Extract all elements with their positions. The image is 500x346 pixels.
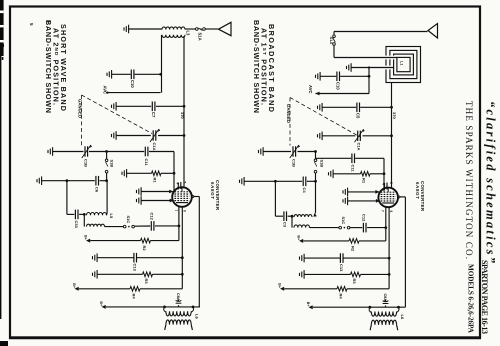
resistor R2 left <box>141 238 151 243</box>
wire S1A to antenna <box>205 28 218 30</box>
wire C13-bus right <box>343 257 389 259</box>
capacitor C7 <box>152 102 155 112</box>
coil L6 primary left <box>164 307 166 312</box>
wire C10-node <box>135 73 160 75</box>
svg-text:R4: R4 <box>132 294 137 300</box>
wire plate left <box>192 196 194 198</box>
svg-text:C3: C3 <box>282 222 287 228</box>
ganged dashed link (left) <box>82 95 153 134</box>
resistor R1 right <box>361 172 371 177</box>
wire ground-R3 <box>97 273 142 275</box>
wire C11 right <box>316 157 352 159</box>
wire ground-C1A right <box>322 135 355 137</box>
resistor R4 right <box>337 287 347 292</box>
ground (C6 line) <box>37 176 42 185</box>
ground (C4 line) <box>240 177 245 186</box>
svg-text:S1B: S1B <box>320 160 325 168</box>
svg-text:C5: C5 <box>356 113 361 119</box>
capacitor C8A left <box>178 305 180 307</box>
node C12/pin right <box>384 226 387 229</box>
wire right box vertical <box>274 181 276 216</box>
coil L6 secondary right <box>371 320 396 325</box>
ground (R1 right) <box>329 170 334 179</box>
svg-text:370: 370 <box>180 112 185 119</box>
wire C6-S1B <box>100 180 107 182</box>
wire B+ to L6 right <box>313 306 406 308</box>
svg-text:S1A: S1A <box>329 37 334 45</box>
wire C12-pin <box>155 225 179 227</box>
left page-edge black bar <box>0 0 4 56</box>
capacitor C8A right <box>385 306 387 308</box>
wire B+-R4 right <box>284 288 337 290</box>
wire C11-corner right <box>355 157 384 159</box>
svg-text:R2: R2 <box>351 246 356 252</box>
svg-text:C8A: C8A <box>176 293 180 301</box>
coil L6 secondary left <box>166 320 191 325</box>
switch S1A <box>196 28 199 31</box>
svg-text:C1B: C1B <box>292 159 297 167</box>
node R3 left <box>181 273 184 276</box>
node C7/bus <box>183 105 186 108</box>
wire C12-pin right <box>367 227 386 229</box>
wire R2-pin <box>151 240 179 242</box>
loop antenna L1 <box>386 47 421 83</box>
svg-text:C10: C10 <box>335 82 340 90</box>
node L5 right a <box>291 215 294 218</box>
svg-text:L6: L6 <box>195 314 200 319</box>
ground (C1A right) <box>318 132 323 141</box>
ground (L3 primary) <box>124 25 129 34</box>
resistor R4 left <box>130 287 140 292</box>
B+ (R4 left) <box>75 287 79 291</box>
capacitor C12 right <box>363 223 366 233</box>
svg-text:R1: R1 <box>153 178 158 184</box>
wire S1B to L5 arrow <box>315 181 317 212</box>
capacitor C1A variable <box>153 130 156 140</box>
wire R4-corner right <box>347 288 389 290</box>
ground (tube grid4 left) <box>137 187 142 196</box>
svg-text:C13: C13 <box>339 264 344 272</box>
svg-text:370: 370 <box>392 112 397 119</box>
capacitor C33 <box>75 210 78 220</box>
wire grid drop (left) <box>173 152 175 192</box>
wire R2-pin right <box>359 240 386 242</box>
wire L3 sec left drop <box>161 35 163 93</box>
pin stubs right <box>384 183 386 190</box>
wire L5 right hook <box>106 213 109 215</box>
svg-text:6A8GT: 6A8GT <box>415 182 420 199</box>
svg-text:L6: L6 <box>400 315 405 320</box>
svg-text:C11: C11 <box>351 165 356 173</box>
resistor R3 left <box>143 272 153 277</box>
svg-text:R3: R3 <box>352 279 357 285</box>
wire g4 <box>141 191 173 193</box>
ground (tube cath left) <box>137 196 142 205</box>
ground (C1B right) <box>259 147 264 156</box>
wire ground-C4 <box>244 180 302 182</box>
coil L3 primary <box>162 27 185 30</box>
svg-text:R2: R2 <box>142 246 147 252</box>
wire B+-R4 <box>79 288 130 290</box>
node L5 left <box>83 213 86 216</box>
svg-text:C33: C33 <box>74 221 79 229</box>
wire ground-C7 <box>116 105 151 107</box>
wire loop-AVC vertical <box>368 68 370 94</box>
node S1B right <box>314 150 317 153</box>
ground (tube cath right) <box>343 197 348 206</box>
capacitor C11 <box>145 147 148 157</box>
svg-text:AVC: AVC <box>308 85 313 94</box>
node C12/pin <box>178 225 181 228</box>
svg-text:L5: L5 <box>109 214 114 219</box>
node L6 left a <box>163 306 166 309</box>
node C10 right <box>368 75 371 78</box>
coil L5 lower (right) <box>294 225 310 228</box>
coil L5 upper (left) <box>87 212 107 215</box>
wire ground-R1 right <box>333 173 360 175</box>
left page-edge thin rule <box>0 56 1 319</box>
svg-text:SPARTON PAGE 16-13: SPARTON PAGE 16-13 <box>480 260 489 334</box>
wire C1A-bus <box>158 135 184 137</box>
wire AVC <box>108 92 161 94</box>
svg-text:6A8GT: 6A8GT <box>210 182 215 199</box>
coil L5 lower (left) <box>87 224 105 226</box>
svg-text:GANGED: GANGED <box>286 104 291 123</box>
wire ground-C13 <box>97 257 134 259</box>
tube 6A8GT left <box>172 187 192 207</box>
svg-text:B+: B+ <box>84 235 88 240</box>
wire corner-C33 <box>67 213 74 215</box>
wire C4-S1B <box>307 180 316 182</box>
svg-text:4: 4 <box>176 183 180 185</box>
wire C1B-node <box>89 151 144 153</box>
node L6 right b <box>397 306 400 309</box>
node L6 left b <box>192 306 195 309</box>
ganged dashed link (right) <box>290 98 361 138</box>
ground (C10) <box>107 70 112 79</box>
svg-text:“clarified schematics”: “clarified schematics” <box>484 101 498 264</box>
svg-text:R1: R1 <box>362 178 367 184</box>
capacitor C10 right <box>337 72 340 82</box>
B+ (R2 right) <box>299 239 303 243</box>
wire AVC right <box>316 92 320 96</box>
wire ground-C1B right <box>263 151 291 153</box>
ground (R3 left) <box>93 270 98 279</box>
wire B+-R2 right <box>303 240 349 242</box>
wire screen pin drop1 <box>178 207 180 241</box>
wire ground-R1 <box>127 172 152 174</box>
node C4 left <box>274 180 277 183</box>
svg-text:SHORT WAVE BAND: SHORT WAVE BAND <box>59 24 68 111</box>
node C1A/bus right <box>390 134 393 137</box>
svg-text:C12: C12 <box>362 214 367 222</box>
svg-text:C12: C12 <box>150 213 155 221</box>
wire C1A-bus right <box>363 135 392 137</box>
B+ (osc left) <box>102 305 106 309</box>
capacitor C5 <box>357 103 360 113</box>
svg-text:CONVERTER: CONVERTER <box>215 180 220 211</box>
wire ground-C10 <box>112 73 131 75</box>
ground (C1B) <box>48 147 53 156</box>
svg-text:L1: L1 <box>400 61 404 65</box>
wire S1A-loop <box>334 57 397 59</box>
wire loop tail <box>391 83 393 189</box>
antenna (right) <box>428 24 438 39</box>
svg-text:C6: C6 <box>95 187 100 193</box>
ground (C7) <box>112 102 117 111</box>
node C6/S1B <box>105 179 108 182</box>
wire ground-C13 right <box>304 257 340 259</box>
wire C11-corner <box>149 151 174 153</box>
wire plate right <box>398 196 400 198</box>
svg-text:R3: R3 <box>144 279 149 285</box>
capacitor C10 <box>131 70 134 80</box>
node AVC <box>106 92 108 94</box>
node loop mid <box>368 66 370 68</box>
coil L6 primary right <box>369 307 371 312</box>
pin stubs left <box>177 183 179 190</box>
wire cath right <box>348 200 380 202</box>
svg-text:C7: C7 <box>151 112 156 118</box>
svg-text:S1A: S1A <box>198 33 203 41</box>
node L6 right a <box>369 306 372 309</box>
node R3 right <box>388 273 391 276</box>
svg-text:S1C: S1C <box>341 217 346 225</box>
wire ground-R3 right <box>304 273 350 275</box>
node C4/S1B <box>314 180 317 183</box>
svg-text:C11: C11 <box>144 159 149 167</box>
wire L5-S1C right <box>310 227 340 229</box>
svg-text:C8A: C8A <box>383 294 387 302</box>
svg-text:7: 7 <box>381 210 385 212</box>
svg-text:6: 6 <box>183 210 187 212</box>
svg-text:C10: C10 <box>130 80 135 88</box>
wire bus 370 (left) <box>183 36 185 189</box>
wire S1C-C12 right <box>350 227 362 229</box>
svg-text:R4: R4 <box>339 294 344 300</box>
wire screen pin drop2 <box>181 207 183 289</box>
switch S1C left <box>123 225 126 228</box>
ground (C1A) <box>112 131 117 140</box>
svg-text:C1B: C1B <box>84 159 89 167</box>
switch S1B right <box>315 152 317 159</box>
switch S1C right <box>339 226 342 229</box>
wire R3-bus <box>153 273 183 275</box>
svg-text:S1C: S1C <box>126 216 131 224</box>
capacitor C13 left <box>134 253 137 263</box>
coil L5 upper (right) <box>294 215 312 217</box>
node C5/bus <box>390 106 393 109</box>
capacitor C13 right <box>340 253 343 263</box>
wire ground-C1A <box>116 135 151 137</box>
svg-text:C4: C4 <box>302 188 307 194</box>
wire ground to L3 <box>129 28 162 30</box>
wire L3 to S1A <box>185 28 196 30</box>
svg-text:C1A: C1A <box>152 143 157 151</box>
wire L5-S1C <box>105 226 124 228</box>
wire pin drop2 right <box>388 207 390 289</box>
capacitor C1B right variable <box>293 146 296 156</box>
capacitor C1A right variable <box>358 131 361 141</box>
ground (C13 right) <box>300 254 305 263</box>
switch S1B left <box>106 152 108 159</box>
wire corner-C3 <box>275 215 283 217</box>
antenna (left) <box>219 22 232 35</box>
wire ground-C5 <box>322 106 356 108</box>
wire pin drop1 right <box>385 207 387 241</box>
ground (C10 right) <box>316 72 321 81</box>
B+ (R2 left) <box>86 239 90 243</box>
svg-text:B+: B+ <box>306 302 310 307</box>
resistor R1 left <box>152 171 162 176</box>
wire C33-L5 <box>79 213 84 215</box>
svg-text:MODELS 6-26,6-26PA: MODELS 6-26,6-26PA <box>467 264 475 334</box>
ground (C13 left) <box>93 253 98 262</box>
capacitor C6 <box>96 176 99 186</box>
svg-text:C1A: C1A <box>357 143 362 151</box>
wire R4-corner <box>140 288 182 290</box>
ground (R1) <box>122 169 127 178</box>
resistor R2 right <box>349 239 359 244</box>
tube 6A8GT right <box>378 188 398 208</box>
svg-text:B+: B+ <box>99 301 103 306</box>
wire R1-corner <box>161 172 174 174</box>
capacitor C12 <box>151 221 154 231</box>
svg-text:S1B: S1B <box>110 160 115 168</box>
switch S1A right <box>333 32 335 35</box>
wire C3-L5 right <box>288 215 292 217</box>
wire C7-bus <box>156 105 184 107</box>
svg-text:B+: B+ <box>278 283 282 288</box>
ground (C5) <box>318 103 323 112</box>
node R1/grid <box>173 172 176 175</box>
svg-text:5: 5 <box>183 182 187 184</box>
node C10/L3 <box>159 73 162 76</box>
B+ (R4 right) <box>280 287 284 291</box>
wire R3-bus right <box>361 273 390 275</box>
wire C1B-S1B right <box>298 151 316 153</box>
svg-text:B+: B+ <box>72 283 76 288</box>
wire left box vertical <box>66 181 68 215</box>
svg-text:4: 4 <box>382 183 386 185</box>
capacitor C1B variable <box>85 146 88 156</box>
node R1 right <box>383 172 386 175</box>
node C1A/bus <box>183 134 186 137</box>
svg-text:B+: B+ <box>297 235 301 240</box>
wire R1-corner right <box>370 173 384 175</box>
svg-text:THE SPARKS WITHINGTON CO.: THE SPARKS WITHINGTON CO. <box>464 101 474 259</box>
wire ground-C1B <box>53 151 84 153</box>
wire C5-bus <box>360 106 391 108</box>
wire ground-C6 <box>42 180 95 182</box>
wire antenna line right <box>334 31 428 33</box>
node C6 left <box>66 179 69 182</box>
wire B+-R2 <box>90 240 140 242</box>
svg-text:GANGED: GANGED <box>78 99 83 118</box>
capacitor C11 right <box>352 154 355 164</box>
svg-text:CONVERTER: CONVERTER <box>420 181 425 212</box>
svg-text:C13: C13 <box>133 264 138 272</box>
wire C10-node right <box>340 75 369 77</box>
node S1B top <box>105 150 108 153</box>
wire B+ to L6 <box>106 306 200 308</box>
node C13 right <box>388 257 391 260</box>
wire g4 right <box>348 191 379 193</box>
svg-text:5: 5 <box>389 182 393 184</box>
wire ground-loop <box>351 67 394 69</box>
coil L3 secondary <box>162 35 185 38</box>
svg-text:L3: L3 <box>186 31 191 37</box>
wire L5 left drop right <box>291 216 293 227</box>
wire ground-C10 right <box>320 75 336 77</box>
capacitor C3 <box>284 211 287 221</box>
wire C13-bus <box>137 257 183 259</box>
B+ (osc right) <box>309 305 313 309</box>
wire cath <box>141 200 173 202</box>
ground (R3 right) <box>300 270 305 279</box>
resistor R3 right <box>351 272 361 277</box>
ground (tube g4 right) <box>343 188 348 197</box>
wire S1C-C12 <box>134 225 150 227</box>
svg-text:7: 7 <box>174 210 178 212</box>
ground (loop) <box>347 63 352 72</box>
capacitor C4 <box>303 177 306 187</box>
wire L5 left drop <box>83 214 85 226</box>
node C13 left <box>181 256 184 259</box>
